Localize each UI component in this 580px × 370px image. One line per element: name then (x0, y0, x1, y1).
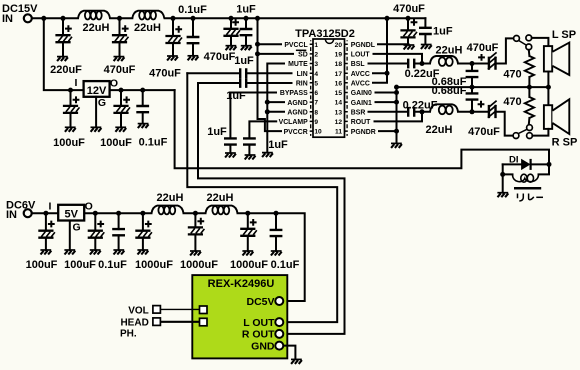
wire PVCC vertical feed (258, 18, 282, 131)
wire speaker L to rail (547, 72, 549, 88)
svg-text:GAIN0: GAIN0 (351, 90, 372, 97)
svg-text:7: 7 (314, 100, 318, 107)
svg-text:VCLAMP: VCLAMP (279, 119, 308, 126)
svg-text:0.1uF: 0.1uF (98, 259, 127, 271)
svg-text:22uH: 22uH (207, 192, 234, 204)
svg-text:470uF: 470uF (149, 68, 181, 80)
svg-text:22uH: 22uH (426, 124, 453, 136)
wire PGNDR pin11 (379, 130, 397, 132)
svg-text:0.68uF: 0.68uF (432, 85, 467, 97)
wire LIN routing loop to L OUT (187, 73, 337, 322)
svg-text:PH.: PH. (120, 329, 137, 340)
jack R contacts (513, 133, 519, 139)
wire jack L to speaker (532, 38, 549, 46)
speaker L SP (544, 46, 552, 71)
svg-text:TPA3125D2: TPA3125D2 (295, 28, 355, 40)
capacitor C10 100uF (120, 90, 122, 127)
node J4 right filter (470, 109, 475, 114)
capacitor C5 470uF (230, 18, 232, 45)
svg-text:100uF: 100uF (53, 137, 85, 149)
svg-text:18: 18 (335, 61, 343, 68)
wire AGND pin8 (267, 111, 284, 113)
node J3 ROUT/BSR (420, 109, 425, 114)
svg-text:22uH: 22uH (134, 22, 161, 34)
wire AVCC riser (373, 18, 387, 83)
svg-text:6: 6 (314, 90, 318, 97)
svg-text:PGNDR: PGNDR (351, 129, 376, 136)
wire rail to speaker R (547, 87, 549, 105)
svg-text:22uH: 22uH (157, 192, 184, 204)
svg-text:AGND: AGND (287, 110, 307, 117)
capacitor C25 1000uF (142, 213, 144, 250)
svg-text:REX-K2496U: REX-K2496U (208, 278, 275, 290)
svg-text:G: G (73, 222, 81, 234)
inductor L6 22uH (206, 206, 238, 215)
svg-text:470uF: 470uF (393, 3, 425, 15)
svg-text:20: 20 (335, 42, 343, 49)
svg-text:I: I (75, 77, 78, 89)
svg-text:4: 4 (314, 71, 318, 78)
node AGND taps (265, 100, 270, 105)
svg-text:R SP: R SP (552, 137, 578, 149)
wire 12V line to relay (175, 90, 549, 168)
svg-text:GND: GND (251, 340, 275, 352)
svg-text:100uF: 100uF (64, 259, 96, 271)
regulator U2 12V (84, 81, 110, 97)
wire REX GND to ground (284, 346, 296, 360)
svg-text:PGNDL: PGNDL (351, 42, 375, 49)
svg-text:L OUT: L OUT (243, 317, 275, 329)
capacitor C15 1uF VCLAMP (249, 121, 276, 155)
node bottom rail junctions (43, 211, 48, 216)
svg-text:17: 17 (335, 71, 343, 78)
svg-text:22uH: 22uH (436, 44, 463, 56)
capacitor C13 1uF RIN coupling (198, 82, 292, 84)
capacitor C8 1uF top right (424, 18, 426, 44)
svg-text:16: 16 (335, 80, 343, 87)
capacitor C27 1000uF (247, 213, 249, 251)
capacitor C26 1000uF (194, 213, 196, 251)
wire 12V output (110, 89, 175, 91)
wire GAIN1 pin14 (376, 101, 397, 103)
svg-text:AGND: AGND (287, 100, 307, 107)
svg-text:AVCC: AVCC (351, 81, 370, 88)
svg-text:1uF: 1uF (268, 139, 288, 151)
svg-text:13: 13 (335, 109, 343, 116)
svg-text:12V: 12V (87, 85, 107, 97)
capacitor C7 470uF top right (407, 18, 409, 45)
inductor L1 22uH (78, 11, 110, 20)
svg-text:1: 1 (314, 42, 318, 49)
node 12V out junctions (68, 88, 73, 93)
svg-text:0.1uF: 0.1uF (139, 136, 168, 148)
svg-text:LOUT: LOUT (351, 52, 371, 59)
capacitor C22 100uF (45, 213, 47, 250)
inductor L4 22uH right (422, 111, 472, 113)
capacitor C14 1uF BYPASS (230, 93, 276, 154)
label リレー relay (518, 194, 544, 202)
svg-text:GAIN1: GAIN1 (351, 100, 372, 107)
svg-text:1000uF: 1000uF (230, 259, 268, 271)
svg-text:L SP: L SP (552, 29, 576, 41)
svg-text:HEAD: HEAD (120, 318, 148, 329)
svg-text:12: 12 (335, 119, 343, 126)
svg-text:G: G (98, 97, 106, 109)
svg-text:BSL: BSL (351, 61, 365, 68)
pad VOL on board (200, 306, 208, 314)
node mid rail junctions (394, 85, 399, 90)
svg-text:2: 2 (314, 52, 318, 59)
pad VOL external (153, 306, 161, 314)
wire top rail (32, 17, 425, 19)
capacitor C23 100uF (94, 213, 96, 250)
capacitor C28 0.1uF (275, 213, 277, 251)
capacitor C18 470uF left series (472, 38, 514, 63)
wire PVCCL pin1 (258, 43, 282, 45)
wire jack R switch (518, 130, 526, 134)
regulator U3 5V (58, 205, 84, 221)
wire HEAD (160, 321, 199, 323)
svg-text:470: 470 (503, 68, 521, 80)
wire mid rail (397, 86, 549, 88)
svg-text:470: 470 (503, 96, 521, 108)
capacitor C11 0.1uF (142, 90, 144, 124)
svg-text:5: 5 (314, 80, 318, 87)
capacitor C17 0.68uF left (471, 64, 473, 88)
ground AGND (262, 153, 273, 158)
ground 12V G (91, 127, 102, 132)
svg-text:R OUT: R OUT (242, 329, 275, 341)
pad HEAD on board (200, 318, 208, 326)
resistor R1 470 left (528, 50, 531, 87)
ground relay (497, 193, 508, 198)
inductor L2 22uH (132, 11, 164, 20)
svg-text:15: 15 (335, 90, 343, 97)
svg-text:470uF: 470uF (468, 126, 500, 138)
svg-text:PVCCR: PVCCR (284, 129, 308, 136)
svg-text:9: 9 (314, 119, 318, 126)
svg-text:1uF: 1uF (207, 126, 227, 138)
svg-text:RIN: RIN (296, 81, 308, 88)
svg-text:DC5V: DC5V (246, 296, 274, 308)
wire RIN routing loop to R OUT (198, 83, 345, 334)
svg-text:8: 8 (314, 109, 318, 116)
relay coil リレー (503, 164, 549, 174)
inductor L5 22uH (152, 206, 184, 215)
svg-text:O: O (85, 200, 93, 212)
wire AGND pin7 (267, 101, 284, 103)
wire GAIN0 pin15 (376, 92, 397, 94)
wire GAIN vertical to ground (396, 87, 398, 143)
node J2 left filter (470, 61, 475, 66)
wire 5V ground lead (69, 221, 71, 251)
wire VOL (160, 308, 199, 310)
diode DI (503, 163, 549, 165)
op-amp U1 TPA3125D2 body (313, 39, 345, 137)
wire SD pin2 (258, 53, 294, 55)
terminal DC6V IN (24, 209, 32, 217)
capacitor C21 470uF right series (472, 112, 513, 136)
capacitor C4 0.1uF (192, 18, 194, 56)
svg-text:0.1uF: 0.1uF (271, 259, 300, 271)
svg-text:PVCCL: PVCCL (284, 42, 307, 49)
wire jack R to speaker (532, 129, 548, 136)
svg-text:470uF: 470uF (204, 51, 236, 63)
wire DC15V to regulator input (44, 18, 84, 90)
capacitor C1 220uF (62, 18, 64, 56)
svg-text:1000uF: 1000uF (135, 259, 173, 271)
svg-text:MUTE: MUTE (288, 61, 308, 68)
svg-text:AVCC: AVCC (351, 71, 370, 78)
svg-text:BYPASS: BYPASS (280, 90, 308, 97)
svg-text:220uF: 220uF (50, 64, 82, 76)
svg-text:1uF: 1uF (234, 55, 254, 67)
svg-text:IN: IN (2, 13, 13, 25)
wire MUTE pin3 to AGND vertical (267, 64, 284, 153)
terminal DC15V IN (24, 14, 32, 22)
svg-text:SD: SD (298, 52, 308, 59)
svg-text:11: 11 (335, 129, 342, 136)
svg-text:100uF: 100uF (26, 259, 58, 271)
capacitor C3 470uF (172, 18, 174, 56)
svg-text:19: 19 (335, 52, 343, 59)
capacitor C9 100uF (70, 90, 72, 127)
svg-text:10: 10 (314, 129, 322, 136)
svg-text:ROUT: ROUT (351, 119, 371, 126)
pin stubs U1 (310, 44, 348, 131)
resistor R2 470 right (528, 87, 531, 125)
node rail junctions (41, 16, 46, 21)
capacitor C20 0.68uF right (471, 87, 473, 112)
svg-text:1uF: 1uF (433, 25, 453, 37)
svg-text:LIN: LIN (297, 71, 308, 78)
svg-text:470uF: 470uF (467, 42, 499, 54)
wire regulator ground lead (95, 97, 97, 128)
svg-text:470uF: 470uF (104, 64, 136, 76)
svg-text:VOL: VOL (128, 306, 149, 317)
svg-text:0.1uF: 0.1uF (178, 4, 207, 16)
capacitor C12 1uF LIN coupling (187, 72, 291, 74)
capacitor C6 1uF (245, 18, 247, 45)
module REX-K2496U board (192, 275, 287, 358)
svg-text:IN: IN (6, 209, 17, 221)
wire PGNDL pin20 to ground (378, 43, 409, 45)
svg-text:I: I (48, 200, 51, 212)
wire bottom rail (32, 213, 305, 301)
capacitor C2 470uF (119, 18, 121, 56)
svg-text:5V: 5V (64, 209, 78, 221)
inductor L3 22uH left (422, 63, 472, 65)
wire jack L switch (519, 41, 526, 45)
node J1 LOUT/BSL (420, 61, 425, 66)
svg-text:14: 14 (335, 100, 343, 107)
svg-text:1uF: 1uF (236, 3, 256, 15)
svg-text:3: 3 (314, 61, 318, 68)
svg-text:22uH: 22uH (83, 22, 110, 34)
jack L contacts (514, 36, 520, 42)
svg-text:BSR: BSR (351, 110, 366, 117)
svg-text:DI: DI (509, 155, 519, 166)
capacitor C24 0.1uF (118, 213, 120, 250)
capacitor C16 0.22uF BSL (369, 63, 423, 65)
pad HEAD external (153, 318, 161, 326)
wire relay left leg to ground (502, 164, 504, 192)
svg-text:100uF: 100uF (100, 137, 132, 149)
speaker R SP (544, 105, 552, 129)
wire ROUT pin12 (375, 112, 423, 122)
wire LOUT pin19 (374, 54, 423, 64)
svg-text:O: O (110, 77, 118, 89)
svg-text:1000uF: 1000uF (180, 259, 218, 271)
capacitor C19 0.22uF BSR (369, 111, 423, 113)
